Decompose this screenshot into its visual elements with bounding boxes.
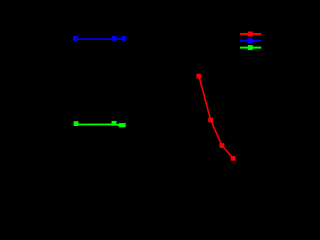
legend red line sample xyxy=(240,33,261,35)
legend blue point marker xyxy=(248,38,253,43)
legend green point marker xyxy=(248,45,253,50)
legend green line sample xyxy=(240,47,261,49)
red series line xyxy=(199,76,233,158)
green series markers xyxy=(74,121,126,127)
blue series line xyxy=(75,38,124,40)
red series markers xyxy=(196,74,235,161)
blue series markers xyxy=(73,36,126,41)
legend blue line sample xyxy=(240,40,261,42)
green series line xyxy=(76,124,123,125)
legend red point marker xyxy=(248,32,253,37)
